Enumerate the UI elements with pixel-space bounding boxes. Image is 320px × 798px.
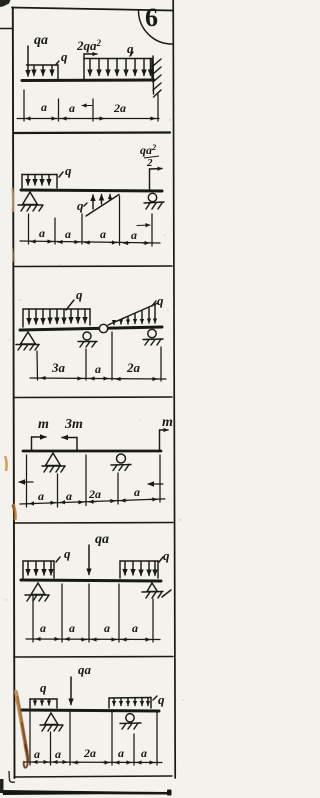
svg-text:q: q (61, 49, 68, 64)
distributed load q d6 left (30, 699, 57, 708)
beam 1 (22, 79, 154, 83)
svg-text:qa: qa (95, 532, 109, 547)
distributed load q (right span) (84, 59, 152, 79)
svg-text:qa: qa (78, 662, 92, 677)
roller support d4 (111, 454, 131, 471)
q label tick triangle (84, 203, 87, 206)
svg-text:q: q (40, 680, 47, 695)
svg-text:qa: qa (34, 33, 48, 48)
distributed load q d5 right (120, 561, 158, 578)
svg-text:q: q (65, 163, 72, 178)
dimension extension lines d3 (37, 332, 161, 381)
svg-text:3a: 3a (51, 360, 66, 375)
pin support left d3 (16, 332, 39, 350)
svg-text:a: a (66, 489, 72, 503)
orange streak near box4/5 border (13, 504, 15, 520)
force qa d5 (88, 545, 90, 575)
separator box1/box2 (14, 131, 170, 134)
beam 2 (21, 190, 162, 191)
decoration arrow right below beam (148, 483, 163, 485)
bottom border (14, 776, 172, 777)
svg-text:q: q (127, 41, 134, 56)
dimension extension lines d5 (33, 584, 153, 642)
roller support d6 (120, 714, 141, 729)
distributed load q span1 (22, 175, 57, 189)
separator box3/box4 (14, 396, 172, 399)
svg-text:a: a (118, 746, 124, 760)
svg-text:a: a (141, 746, 147, 760)
right border (173, 0, 175, 778)
svg-text:q: q (77, 198, 84, 213)
brown streak diagram 6 (16, 692, 28, 760)
svg-text:a: a (134, 485, 140, 499)
svg-text:a: a (104, 621, 110, 635)
distributed load q d6 right (109, 698, 151, 709)
pin support d5 left (25, 583, 49, 601)
force qa at left end (27, 46, 29, 76)
dimension line d3 (30, 378, 166, 379)
svg-text:6: 6 (145, 3, 158, 32)
dimension line d5 (26, 638, 160, 641)
dimension extension lines d4 (27, 455, 161, 507)
separator box2/box3 (14, 265, 172, 268)
pin support left (18, 192, 43, 211)
svg-text:2a: 2a (113, 101, 126, 115)
dimension line d2 (20, 241, 160, 243)
svg-text:3m: 3m (64, 417, 83, 432)
svg-text:2a: 2a (126, 360, 141, 375)
moment 3m bent arrow (62, 438, 77, 452)
svg-text:q: q (157, 293, 164, 308)
svg-text:a: a (40, 621, 46, 635)
beam 3 (20, 327, 162, 330)
svg-text:2a: 2a (88, 487, 101, 501)
svg-text:a: a (55, 747, 61, 761)
pin support d6 (40, 713, 63, 731)
svg-text:a: a (65, 227, 71, 241)
svg-text:a: a (34, 747, 40, 761)
dimension extension lines d2 (29, 196, 153, 246)
left margin protruding tick (0, 28, 13, 30)
moment m left bent arrow (32, 437, 47, 451)
svg-text:a: a (100, 227, 106, 241)
bottom-left corner tick (9, 771, 15, 782)
beam 6 (21, 710, 159, 711)
left border (13, 8, 15, 779)
dimension line d1 (17, 118, 159, 120)
dimension line d4 (20, 498, 165, 504)
triangular load below beam span3 (86, 195, 119, 217)
bottom black band (2, 790, 171, 795)
moment 2qa^2 bent arrow (84, 54, 97, 79)
svg-text:m: m (38, 417, 49, 432)
distributed load q (left span) (27, 65, 59, 79)
distributed load q left span (23, 309, 90, 327)
force qa d6 (70, 677, 72, 705)
q label tick d5 left (56, 557, 60, 562)
q label tick (right) (130, 52, 133, 56)
svg-text:q: q (158, 692, 165, 707)
svg-text:a: a (131, 228, 137, 242)
small arrow after second a label (82, 105, 92, 107)
dimension extension lines d6 (30, 712, 157, 765)
svg-text:a: a (39, 226, 45, 240)
moment m right bent arrow (160, 430, 169, 451)
q label tick d5 right (159, 557, 163, 562)
support d5 right (small pin) (142, 583, 171, 598)
hinge circle on beam (99, 324, 107, 332)
decoration arrow left below beam (19, 481, 33, 483)
svg-text:m: m (162, 415, 173, 430)
dimension line d6 (24, 761, 162, 764)
paper specks (5, 119, 183, 700)
page corner arc (139, 11, 173, 44)
svg-text:q: q (76, 287, 83, 302)
svg-text:a: a (69, 101, 75, 115)
separator box5/box6 (14, 656, 173, 659)
svg-text:2: 2 (146, 157, 153, 169)
small arrow decoration near right tick (137, 224, 150, 227)
q label slash left (66, 300, 74, 310)
distributed load q d5 left (23, 561, 54, 578)
svg-text:2a: 2a (83, 746, 96, 760)
roller support middle (78, 332, 97, 347)
paper background (0, 0, 188, 798)
triangular load right span (108, 303, 158, 325)
svg-text:a: a (95, 362, 101, 376)
top border (12, 8, 173, 11)
orange dots left edge y460 (5, 456, 7, 471)
beam 4 (23, 450, 161, 453)
q label tick span1 (59, 172, 63, 177)
top-left corner blob (0, 0, 11, 7)
svg-text:a: a (132, 621, 138, 635)
bottom-left black blob (0, 779, 4, 793)
svg-text:a: a (38, 489, 44, 503)
svg-text:q: q (163, 548, 170, 563)
pin support d4 (42, 453, 65, 472)
moment qa2/2 bent arrow right end (150, 169, 163, 191)
roller support right d3 (143, 329, 163, 345)
q label tick d6 right (153, 696, 157, 700)
svg-text:q: q (64, 546, 71, 561)
svg-text:a: a (69, 621, 75, 635)
roller support right (144, 193, 164, 209)
dimension extension lines d1 (24, 90, 158, 121)
svg-text:a: a (41, 100, 47, 114)
separator box4/box5 (14, 522, 173, 525)
q label slash right d3 (152, 301, 156, 306)
q label tick (left) (56, 61, 60, 65)
tan smudge left border y200 (12, 188, 13, 212)
beam 5 (21, 580, 161, 581)
wall (fixed support) at right (153, 56, 161, 97)
